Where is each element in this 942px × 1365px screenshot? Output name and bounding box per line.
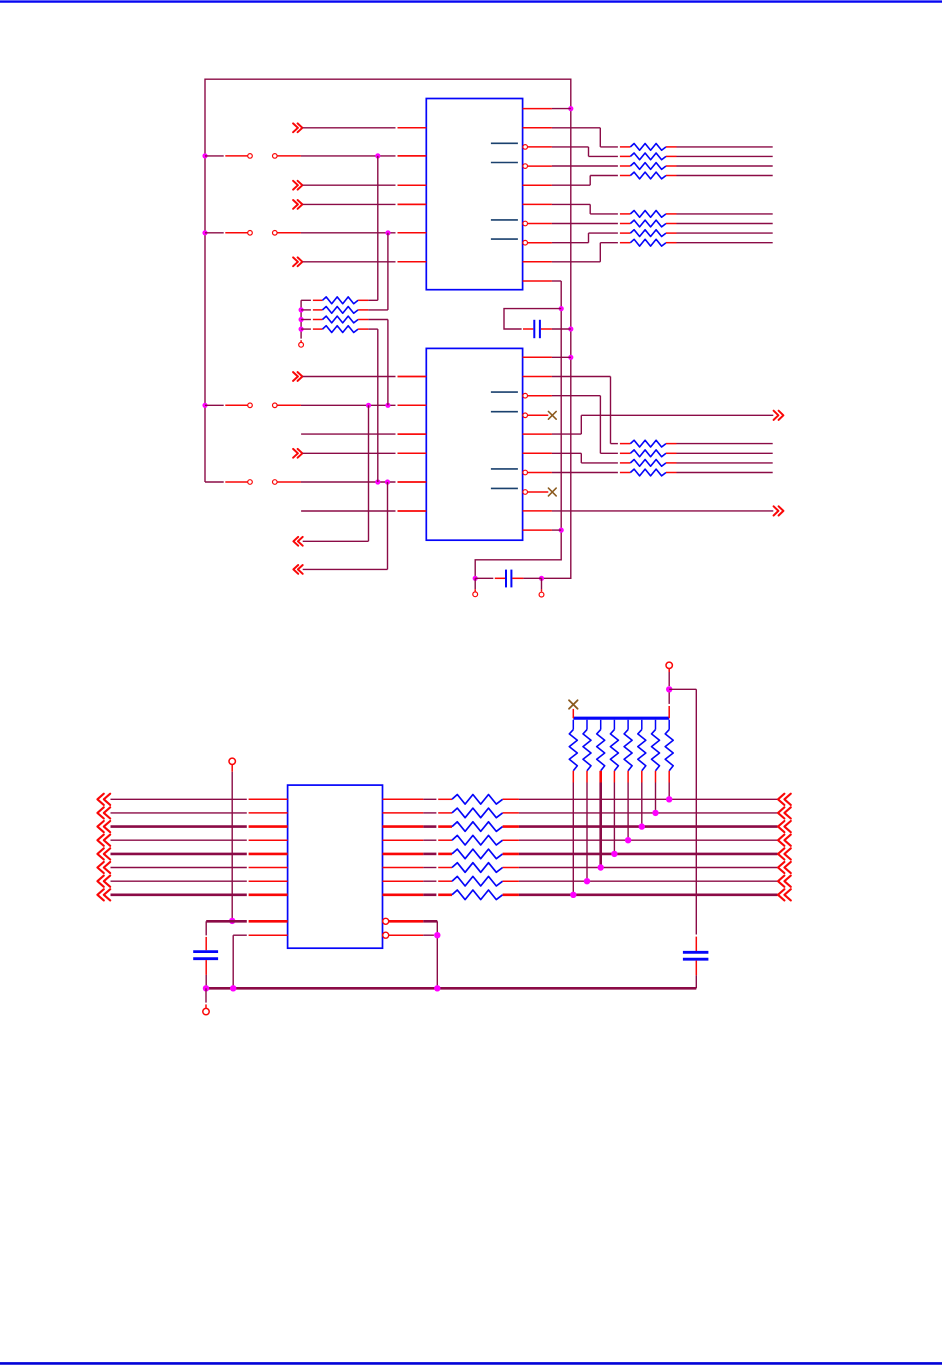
U1 left pin stubs [398, 128, 427, 262]
wire RA2 output [677, 155, 773, 157]
wire left row4 [111, 839, 288, 841]
wire U1 pin to RB4 [552, 243, 618, 262]
resistor RB3 [620, 230, 677, 237]
junction dot row10-right [434, 932, 440, 938]
off-page connector arrow left row6 [97, 862, 110, 873]
wire left row8 [111, 893, 288, 896]
wire row3 to right connector [519, 825, 778, 828]
wire C3 bottom lead [205, 960, 207, 988]
wire ground rail [206, 987, 696, 990]
wire U1 pin to RA3 [552, 165, 618, 167]
U2 right pin stubs [523, 357, 552, 530]
off-page connector arrow right row4 [778, 835, 791, 846]
wire row7 to right connector [519, 880, 778, 882]
power pin circle left [473, 592, 478, 597]
wire left row6 [111, 867, 288, 869]
junction dots pack-F bus [299, 307, 304, 331]
junction dot RP2 [584, 878, 590, 884]
wire U2 left pin row 2 [301, 510, 426, 512]
off-page connector arrow IN3 and wire [293, 200, 426, 209]
U1 inverted pin circles [523, 145, 528, 245]
wire row2 to right connector [519, 812, 778, 814]
wire C2 right lead [523, 577, 541, 579]
connector circle pack-F [299, 342, 304, 347]
U3 right power circles [383, 918, 389, 938]
U1 right pin stubs [523, 109, 552, 281]
wire U2 pin to RC3 [552, 453, 618, 463]
power pin circle left supply [229, 758, 235, 764]
wire RP4 to row5 [613, 771, 615, 854]
wire C1 left loop [504, 309, 561, 329]
wire U3 left row10 [233, 935, 287, 988]
power stub right below C2 [541, 578, 543, 591]
resistor RD6 [438, 863, 519, 873]
wire RP1 to row8 [572, 771, 574, 895]
power pin circle right [539, 592, 544, 597]
junction dot RP7 [652, 810, 658, 816]
wire net-A vertical (GND) [475, 281, 561, 578]
wire RP2 to row7 [586, 771, 588, 881]
border line bottom [0, 1362, 942, 1365]
wire U1 pin to RB2 [552, 223, 618, 225]
wire U3 right row10 [389, 934, 434, 936]
wire row6 to right connector [519, 867, 778, 869]
resistor RF4 [301, 326, 378, 333]
jumper JP4 with open-circle pins and wire [205, 479, 426, 484]
no-connect X pull-up left [569, 700, 578, 709]
off-page connector arrow OUT-A and wire [293, 405, 368, 545]
IC U2 body [426, 348, 522, 540]
wire U1 pin10 to GND vertical [552, 280, 561, 282]
resistor RD4 [438, 835, 519, 845]
off-page connector arrow IN5 and wire [293, 372, 426, 381]
off-page connector arrow right row8 [778, 889, 791, 900]
wire U2 pin5 to off-page right (row1) [552, 415, 773, 434]
wire U2 pin to RC1 [552, 377, 618, 444]
off-page connector arrow left row7 [97, 876, 110, 887]
off-page connector arrow left row2 [97, 807, 110, 818]
junction dot RP4 [611, 851, 617, 857]
wire RB4 output [677, 242, 773, 244]
resistor RP1 (pull-up) [569, 720, 577, 771]
resistor RP3 (pull-up) [597, 720, 605, 771]
resistor RA4 [620, 172, 677, 179]
capacitor C1 [523, 320, 552, 338]
resistor RF2 [301, 307, 388, 314]
wire U1 pin to RB1 [552, 204, 618, 214]
resistor RA2 [620, 153, 677, 160]
power pin circle pull-up [666, 662, 672, 668]
wire row1 to right connector [519, 798, 778, 800]
wire VCC over to C4 [669, 689, 696, 934]
resistor RD1 [438, 795, 519, 805]
wire left row5 [111, 853, 288, 856]
wire U1 pin to RB3 [552, 233, 618, 243]
wire rail to ground circle [205, 988, 207, 1008]
ground pin circle [203, 1008, 209, 1014]
junction dot RP3 [598, 864, 604, 870]
off-page connector arrow OUT-B and wire [293, 482, 387, 574]
resistor RD7 [438, 876, 519, 886]
wire U3 right row1 to RD1 [383, 798, 437, 800]
wire RB3 output [677, 232, 773, 234]
resistor RA3 [620, 163, 677, 170]
wire C4 top lead [695, 937, 697, 952]
off-page connector arrow right row2 [778, 807, 791, 818]
resistor RF3 [301, 316, 388, 323]
resistor RF1 [301, 297, 378, 304]
no-connect X on U2 pin 4 [548, 411, 556, 419]
wire RF1 up to jumper row1 [377, 156, 379, 300]
junction dot RP8 [666, 796, 672, 802]
off-page connector arrow left row4 [97, 835, 110, 846]
resistor RC1 [620, 440, 677, 447]
U1 active-low pin overbars [491, 143, 518, 239]
wire U3 right row3 to RD3 [383, 825, 437, 828]
IC U3 body [288, 785, 383, 948]
resistor RP4 (pull-up) [610, 720, 618, 771]
wire RC2 output [677, 452, 773, 454]
wire left supply vertical [231, 765, 233, 921]
wire U2 pin10 to GND vertical [552, 529, 561, 531]
wire RF2 up to jumper row2 [387, 233, 389, 310]
wire RB1 output [677, 213, 773, 215]
resistor RD5 [438, 849, 519, 859]
wire U2 pin to RC4 [552, 472, 618, 474]
wire RF3 down to jumper row3 [387, 320, 389, 406]
resistor RP5 (pull-up) [624, 720, 632, 771]
wire C3 top lead [205, 921, 207, 950]
junction dots ground rail [203, 985, 441, 991]
off-page connector arrow IN2 and wire [293, 181, 426, 190]
jumper JP1 with open-circle pins and wire [205, 153, 426, 158]
wire RF4 down to jumper row4 [377, 329, 379, 482]
wire U1 pin to RA2 [552, 147, 618, 157]
off-page connector arrow left row3 [97, 821, 110, 832]
wire C2 left lead [475, 577, 493, 579]
wire U1 pin to RA4 [552, 176, 618, 186]
wire pack-F bus vertical [300, 300, 302, 342]
junction dot RP6 [639, 823, 645, 829]
wire RA3 output [677, 165, 773, 167]
wire U3 right row2 to RD2 [383, 812, 437, 814]
resistor RP7 (pull-up) [652, 720, 660, 771]
resistor RP2 (pull-up) [583, 720, 591, 771]
resistor RD2 [438, 808, 519, 818]
resistor RC3 [620, 460, 677, 467]
wire RA1 output [677, 146, 773, 148]
off-page connector arrow right row5 [778, 848, 791, 859]
wire left row1 [111, 798, 288, 800]
wire U3 right row8 to RD8 [383, 893, 437, 896]
wire row4 to right connector [519, 839, 778, 841]
wire RC4 output [677, 472, 773, 474]
off-page connector arrow right row1 [778, 794, 791, 805]
wire pull-up VCC to circle [668, 669, 670, 686]
off-page connector arrow left row8 [97, 889, 110, 900]
border line top [0, 0, 942, 2]
resistor RD8 [438, 890, 519, 900]
resistor RB1 [620, 211, 677, 218]
off-page connector arrow IN4 and wire [293, 257, 426, 266]
wire RP5 to row4 [627, 771, 629, 840]
resistor RP6 (pull-up) [638, 720, 646, 771]
resistor RP8 (pull-up) [665, 720, 673, 771]
junction dots on VCC bus [202, 153, 207, 408]
wire left row7 [111, 880, 288, 882]
off-page connector arrow left row5 [97, 848, 110, 859]
wire C1 right to VCC vertical [552, 328, 571, 330]
wire pull-up VCC stub [668, 689, 670, 718]
off-page connector arrow IN1 and wire [293, 123, 426, 132]
wire RC1 output [677, 443, 773, 445]
wire left row2 [111, 812, 288, 814]
wire U3 right row6 to RD6 [383, 867, 437, 869]
resistor RC2 [620, 450, 677, 457]
wire RP3 to row6 [599, 771, 602, 868]
wire U2 pin1 to VCC vertical [552, 356, 571, 358]
capacitor C2 [495, 570, 524, 588]
off-page connector arrow right row2 [774, 506, 784, 515]
wire U1 pin1 to VCC vertical [552, 108, 571, 110]
jumper JP3 with open-circle pins and wire [205, 403, 426, 408]
resistor RA1 [620, 144, 677, 151]
resistor RC4 [620, 469, 677, 476]
off-page connector arrow right row3 [778, 821, 791, 832]
wire C4 bottom lead [695, 961, 697, 989]
wire row8 to right connector [519, 893, 778, 896]
resistor RB2 [620, 220, 677, 227]
wire RP8 to row1 [668, 771, 670, 800]
power stub left below C2 [474, 578, 476, 591]
junction dot left supply [229, 918, 235, 924]
wire left row3 [111, 825, 288, 828]
junction dots on net-B vertical [539, 106, 574, 581]
wire row5 to right connector [519, 853, 778, 856]
wire RB2 output [677, 223, 773, 225]
wire U2 pin9 to off-page right (row2) [552, 510, 773, 512]
jumper JP2 with open-circle pins and wire [205, 230, 426, 235]
wire U2 left pin row 1 [301, 433, 426, 435]
wire RP6 to row3 [641, 771, 643, 827]
wire RA4 output [677, 175, 773, 177]
IC U1 body [426, 99, 522, 290]
off-page connector arrow right row7 [778, 876, 791, 887]
off-page connector arrow right row1 [774, 411, 784, 420]
wire U3 right row7 to RD7 [383, 880, 437, 882]
wire VCC rail and net-B vertical [205, 79, 571, 578]
wire U2 pin to RC2 [552, 396, 618, 454]
resistor RB4 [620, 239, 677, 246]
wire U3 left row9 [206, 920, 287, 923]
stub X to bus [572, 709, 574, 718]
U2 inverted pin circles [523, 393, 528, 494]
wire U3 right row9 down [389, 921, 437, 988]
junction dots on net-A vertical [473, 306, 564, 581]
wire RC3 output [677, 462, 773, 464]
U2 active-low pin overbars [491, 392, 518, 488]
wire RP7 to row2 [655, 771, 657, 813]
capacitor C3 [193, 952, 218, 959]
wire U3 right row5 to RD5 [383, 853, 437, 856]
wire U3 right row4 to RD4 [383, 839, 437, 841]
off-page connector arrow IN6 and wire [293, 449, 426, 458]
wire pull-up bus bar [573, 717, 669, 720]
junction dot pull-up VCC [666, 686, 672, 692]
wire U1 pin to RA1 [552, 128, 618, 147]
capacitor C4 [683, 952, 709, 959]
junction dot RP5 [625, 837, 631, 843]
resistor RD3 [438, 822, 519, 832]
off-page connector arrow left row1 [97, 794, 110, 805]
U2 left pin stubs [398, 377, 427, 512]
junction dot RP1 [570, 892, 576, 898]
no-connect X on U2 pin 8 [548, 488, 556, 496]
off-page connector arrow right row6 [778, 862, 791, 873]
